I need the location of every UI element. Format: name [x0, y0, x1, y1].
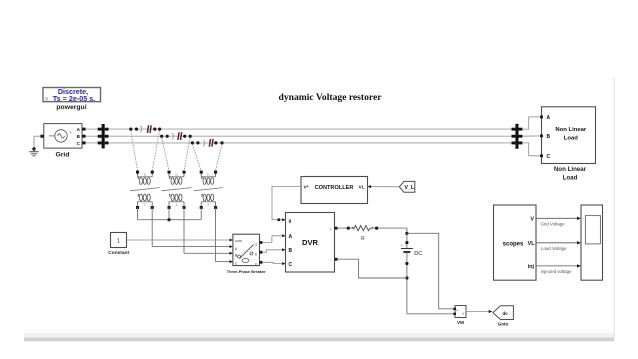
svg-text:Load: Load: [564, 136, 578, 142]
wire grid A to busbar1: [86, 128, 98, 130]
port C of load: [540, 154, 543, 157]
wire DC bottom to VM minus: [407, 313, 455, 315]
svg-text:powergui: powergui: [56, 104, 86, 111]
svg-text:Load Voltage: Load Voltage: [541, 246, 567, 251]
wire T3 secondary to breaker C: [216, 208, 233, 264]
svg-text:2: 2: [207, 203, 209, 207]
wire diagonal T3 left: [192, 144, 201, 171]
DVR output port +: [335, 227, 338, 230]
wire DC top to VM plus: [407, 233, 455, 308]
node below battery: [405, 262, 408, 265]
wire busbar2 to load C: [522, 143, 541, 156]
voltage measurement VM: [453, 306, 466, 326]
wire diagonal T2 right: [184, 138, 190, 171]
wire T2 secondary to breaker B: [184, 208, 233, 255]
port A of Grid: [82, 128, 86, 131]
wire phase A line: [109, 128, 516, 130]
svg-text:b: b: [255, 252, 257, 256]
svg-text:V: V: [530, 216, 534, 222]
powergui block: [43, 87, 101, 111]
DC branch vertical lower: [406, 253, 408, 314]
wire diagonal T1 left: [131, 131, 138, 171]
svg-text:1: 1: [117, 238, 120, 244]
svg-text:VL: VL: [528, 241, 536, 247]
DVR output port -: [335, 258, 338, 261]
wire breaker b to DVR B: [260, 248, 286, 253]
svg-text:CONTROLLER: CONTROLLER: [315, 185, 354, 191]
node DC top: [405, 232, 408, 235]
svg-text:Three-Phase Breaker: Three-Phase Breaker: [227, 269, 266, 274]
node DC bottom junction: [405, 276, 408, 279]
svg-text:B: B: [547, 134, 551, 140]
node on secondary bus: [167, 218, 170, 221]
controller block: [301, 177, 368, 204]
constant block: [108, 233, 129, 256]
svg-text:2: 2: [176, 203, 178, 207]
svg-text:Goto: Goto: [498, 322, 509, 327]
wire scopes V to scope: [536, 217, 581, 227]
port C of Grid: [82, 141, 86, 144]
busbar B1: [98, 124, 109, 148]
svg-text:c: c: [255, 262, 257, 266]
svg-text:V_L: V_L: [404, 185, 415, 191]
ground symbol: [29, 149, 39, 156]
wire grid B to busbar1: [86, 135, 98, 137]
svg-text:Constant: Constant: [108, 250, 129, 256]
series element phase A: [129, 125, 161, 133]
wire controller V* to DVR g: [272, 186, 301, 221]
wire scopes VL to scope: [536, 241, 581, 251]
svg-text:A: A: [289, 234, 293, 240]
wire diagonal T3 right: [216, 144, 223, 171]
wire breaker c to DVR C: [260, 261, 286, 265]
transformer T1: [130, 171, 160, 209]
wire busbar2 to load B: [522, 135, 541, 137]
non linear load block: [542, 107, 596, 182]
goto tag dc: [493, 306, 514, 327]
series element phase B: [160, 132, 192, 140]
svg-text:Non Linear: Non Linear: [555, 127, 586, 133]
from tag V_L: [399, 181, 415, 192]
busbar B2: [512, 124, 523, 149]
port B of Grid: [82, 135, 86, 138]
wire VM to Goto: [466, 310, 492, 313]
transformer T2: [162, 171, 192, 209]
svg-text:VM: VM: [457, 320, 464, 325]
wire secondary common bus: [138, 208, 202, 220]
svg-text:dynamic Voltage restorer: dynamic Voltage restorer: [278, 92, 382, 103]
slide right edge line: [613, 77, 616, 339]
series element phase C: [191, 139, 224, 147]
svg-text:DVR: DVR: [302, 238, 319, 247]
slide bottom shadow band: [24, 333, 614, 342]
wire busbar2 to load A: [522, 117, 541, 129]
wire scopes inj to scope: [536, 264, 581, 274]
node after resistor: [375, 227, 378, 230]
svg-text:a: a: [255, 243, 257, 247]
svg-text:com: com: [235, 239, 242, 243]
svg-text:C: C: [289, 262, 293, 268]
svg-text:V*: V*: [304, 184, 309, 189]
title text: [278, 92, 382, 103]
wire T1 secondary to breaker A: [152, 208, 233, 249]
wire constant to breaker com: [127, 239, 233, 242]
svg-text:+: +: [456, 309, 458, 313]
scope block: [581, 205, 603, 280]
svg-text:DC: DC: [414, 251, 422, 257]
svg-text:C: C: [547, 154, 551, 160]
svg-text:v: v: [463, 312, 465, 316]
wire diagonal T2 left: [162, 138, 169, 171]
svg-text:g: g: [289, 218, 292, 223]
transformer T3: [194, 171, 223, 209]
svg-text:Ts = 2e-05 s.: Ts = 2e-05 s.: [53, 94, 95, 103]
svg-text:2: 2: [144, 203, 146, 207]
svg-text:Non Linear: Non Linear: [554, 166, 587, 173]
DVR block: [286, 213, 335, 273]
node on + wire: [347, 227, 350, 230]
svg-text:VL: VL: [359, 184, 365, 189]
svg-text:scopes: scopes: [503, 241, 524, 247]
wire diagonal T1 right: [152, 131, 159, 171]
source block Grid: [44, 124, 82, 159]
wire V_L to controller VL: [368, 185, 400, 188]
svg-text:injected voltage: injected voltage: [541, 269, 572, 274]
DC branch vertical upper: [406, 228, 408, 248]
port A of load: [540, 116, 543, 119]
svg-text:Grid: Grid: [56, 151, 70, 158]
svg-text:B: B: [289, 248, 293, 254]
wire DVR - output to DC bottom: [338, 259, 407, 278]
svg-text:R: R: [361, 236, 365, 242]
three-phase breaker block: [227, 234, 266, 274]
node at ground: [32, 147, 35, 150]
scopes subsystem block: [494, 205, 537, 280]
wire grid neutral: [34, 136, 40, 149]
wire phase B line: [109, 135, 516, 137]
svg-text:inj: inj: [528, 264, 535, 270]
node above battery: [405, 241, 408, 244]
port N of Grid: [40, 135, 43, 138]
resistor R: [352, 226, 373, 243]
wire R to DC branch: [371, 227, 407, 229]
wire breaker a to DVR A: [260, 234, 286, 244]
port B of load: [540, 135, 543, 138]
wire phase C line: [109, 142, 516, 144]
svg-text:dc: dc: [502, 311, 508, 316]
svg-text:Grid Voltage: Grid Voltage: [541, 222, 566, 227]
svg-text:Load: Load: [563, 175, 578, 182]
svg-text:C: C: [235, 261, 238, 265]
svg-text:A: A: [547, 115, 551, 121]
wire DVR + output: [338, 227, 355, 229]
wire grid C to busbar1: [86, 142, 98, 144]
DC battery: [400, 243, 422, 257]
